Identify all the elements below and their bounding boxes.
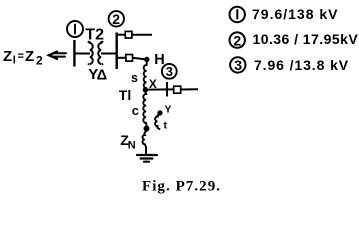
svg-text:Z: Z <box>3 48 12 65</box>
bus number 3 (circled) <box>162 64 177 79</box>
svg-text:t: t <box>164 120 168 132</box>
svg-text:3: 3 <box>234 57 242 73</box>
node H (junction dot) <box>144 57 149 62</box>
wire node X to breaker <box>148 88 174 90</box>
svg-text:7.96 /13.8 kV: 7.96 /13.8 kV <box>254 57 349 73</box>
bus 1 bar <box>73 40 75 67</box>
svg-text:3: 3 <box>166 64 173 79</box>
node X (junction dot) <box>143 87 148 92</box>
wire X feeder right segment <box>181 88 198 90</box>
legend bus 3 (circled) <box>230 57 245 72</box>
svg-text:2: 2 <box>233 32 241 48</box>
svg-text:c: c <box>132 103 139 118</box>
svg-text:N: N <box>128 140 136 152</box>
transformer T2 primary winding <box>89 42 93 64</box>
legend bus 2 (circled) <box>230 32 245 47</box>
bus 2 bar <box>115 33 117 70</box>
breaker square X feeder <box>174 86 181 93</box>
arrow to bus 1 <box>49 52 66 59</box>
svg-text:2: 2 <box>36 54 43 68</box>
svg-text:Fig. P7.29.: Fig. P7.29. <box>142 179 221 195</box>
node label Z1 = Z2 <box>3 48 43 68</box>
breaker square top feeder <box>125 31 132 38</box>
svg-text:=: = <box>18 51 24 63</box>
legend bus 1 (circled) <box>230 7 245 22</box>
label ZN <box>120 132 136 152</box>
neutral impedance ZN squiggle <box>143 131 147 154</box>
tertiary winding t <box>155 115 160 130</box>
node N (junction dot at winding bottom) <box>144 126 150 132</box>
bus number 2 (circled) <box>109 11 124 26</box>
svg-text:s: s <box>131 71 138 85</box>
breaker square second feeder <box>126 55 133 62</box>
wire top feeder right segment <box>132 34 152 36</box>
wire top feeder left segment <box>117 34 126 36</box>
svg-text:79.6/138 kV: 79.6/138 kV <box>252 6 339 22</box>
svg-text:Z: Z <box>25 48 34 65</box>
tertiary terminal dot Y <box>157 110 162 115</box>
wire second feeder left segment <box>117 57 126 59</box>
svg-text:2: 2 <box>112 11 120 27</box>
wire bus1 to T2 primary <box>76 53 91 55</box>
label YD (winding connection) <box>88 66 107 83</box>
svg-text:T2: T2 <box>85 26 104 43</box>
T1 series winding s <box>144 62 147 88</box>
svg-text:Y: Y <box>165 104 172 116</box>
wire second feeder to node H <box>133 58 145 60</box>
svg-text:Tl: Tl <box>119 87 131 103</box>
ground symbol <box>137 155 157 162</box>
svg-text:l: l <box>13 55 16 67</box>
T1 common winding c <box>143 92 146 126</box>
svg-text:Δ: Δ <box>97 67 107 83</box>
svg-text:10.36 / 17.95kV: 10.36 / 17.95kV <box>253 31 359 47</box>
wire T2 secondary to bus 2 <box>101 53 117 55</box>
tick on X feeder <box>166 82 168 97</box>
bus number 1 (circled) <box>67 21 83 37</box>
transformer T2 secondary winding <box>98 42 102 64</box>
